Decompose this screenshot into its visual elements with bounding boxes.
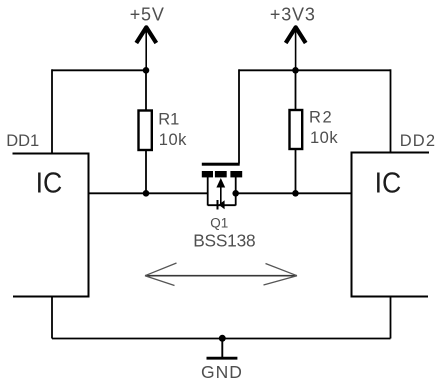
+3V3 supply arrow	[286, 27, 306, 70]
svg-text:+3V3: +3V3	[270, 4, 316, 24]
wire top-right rail	[239, 69, 391, 71]
svg-text:GND: GND	[201, 362, 243, 382]
wire left vertical drop to DD1	[51, 69, 53, 153]
junction dot +5V/R1	[143, 67, 150, 74]
wire R1 bottom	[145, 149, 147, 193]
wire top-left rail	[52, 69, 146, 71]
svg-text:R1: R1	[158, 111, 179, 129]
svg-text:10k: 10k	[310, 129, 338, 147]
transistor Q1 body arrow	[216, 178, 225, 188]
junction dot GND	[219, 335, 226, 342]
wire gate drop	[238, 69, 240, 163]
wire right vertical drop to DD2	[390, 69, 392, 152]
resistor R2	[290, 110, 303, 149]
transistor Q1 source lead	[235, 177, 237, 206]
svg-text:+5V: +5V	[130, 4, 165, 24]
svg-text:10k: 10k	[159, 131, 187, 149]
svg-text:DD1: DD1	[6, 132, 39, 150]
junction dot R1/data	[143, 190, 150, 197]
transistor Q1 drain lead	[207, 177, 209, 206]
transistor Q1 channel bars	[202, 171, 213, 177]
svg-text:R2: R2	[309, 108, 333, 126]
transistor Q1 body diode	[217, 200, 219, 210]
+5V supply arrow	[136, 27, 156, 70]
wire bottom rail	[52, 338, 391, 340]
wire data line right	[236, 192, 352, 194]
IC DD1 box	[13, 154, 89, 297]
transistor Q1 gate plate	[202, 163, 240, 166]
resistor R1	[139, 111, 152, 151]
svg-text:IC: IC	[375, 166, 402, 198]
junction dot R2/data	[292, 190, 299, 197]
svg-text:DD2: DD2	[400, 132, 437, 150]
svg-text:IC: IC	[36, 166, 63, 198]
ground symbol	[221, 339, 223, 358]
svg-text:BSS138: BSS138	[193, 230, 255, 250]
svg-text:Q1: Q1	[210, 215, 228, 230]
transistor Q1 bottom rail	[208, 204, 236, 206]
wire R1 top	[145, 70, 147, 110]
bidirectional arrow	[145, 263, 297, 286]
junction dot +3V3/R2	[292, 67, 299, 74]
wire R2 top	[295, 70, 297, 109]
IC DD2 box	[352, 153, 430, 297]
junction dot Q1 source/data	[232, 190, 239, 197]
wire data line left	[89, 192, 208, 194]
wire DD1 bottom	[51, 297, 53, 339]
wire DD2 bottom	[390, 297, 392, 339]
wire R2 bottom	[295, 148, 297, 193]
